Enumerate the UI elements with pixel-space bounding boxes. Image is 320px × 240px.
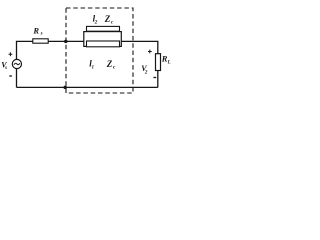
plus sign at load — [148, 50, 152, 54]
svg-text:Z: Z — [104, 14, 111, 24]
wire right: load to bottom rail — [157, 71, 159, 88]
label l1 — [89, 59, 94, 71]
label V_2 — [141, 64, 148, 75]
svg-text:Z: Z — [106, 59, 113, 69]
label V_s — [1, 60, 7, 71]
node dot on top wire — [64, 40, 68, 44]
svg-text:s: s — [4, 66, 7, 71]
plus sign at source — [9, 52, 13, 56]
transmission line section l2 Zc (top box) — [87, 26, 120, 31]
label R_s — [32, 25, 42, 36]
wire top-left: source to R_s to node A — [17, 41, 84, 59]
transmission line section l1 Zc (bottom box) — [87, 41, 120, 47]
label Zc top — [104, 14, 114, 26]
svg-text:R: R — [32, 25, 39, 35]
node dot on bottom rail — [63, 86, 67, 90]
minus sign at load — [153, 77, 156, 79]
label Zc bottom — [106, 59, 116, 71]
wire left-bottom: source down to bottom rail — [16, 69, 18, 88]
dashed matching-network box — [66, 8, 133, 93]
svg-text:2: 2 — [144, 71, 148, 76]
label R_L — [161, 54, 171, 66]
parallel-line frame (buses) of network — [84, 32, 122, 47]
svg-text:2: 2 — [94, 21, 98, 26]
label l2 — [93, 14, 98, 26]
AC source V_s circle — [12, 59, 21, 68]
svg-text:L: L — [167, 60, 171, 65]
minus sign at source — [9, 75, 12, 77]
wire top-right: network to load R_L — [121, 41, 158, 53]
resistor R_s — [33, 39, 48, 43]
svg-text:1: 1 — [92, 66, 95, 71]
svg-text:s: s — [40, 32, 43, 37]
load resistor R_L — [156, 54, 161, 71]
wire bottom rail — [17, 86, 158, 88]
